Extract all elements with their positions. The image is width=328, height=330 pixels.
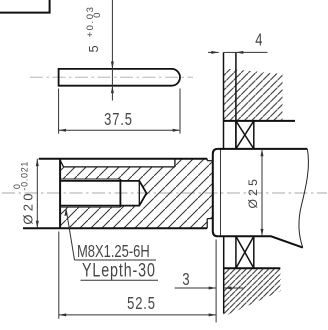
svg-text:0: 0 [92, 12, 103, 18]
svg-text:Ø25: Ø25 [246, 176, 260, 209]
svg-text:4: 4 [255, 31, 262, 51]
svg-text:+0.03: +0.03 [85, 5, 96, 37]
svg-text:-0.021: -0.021 [20, 161, 30, 191]
svg-text:Ø20: Ø20 [21, 190, 36, 224]
svg-text:YLepth-30: YLepth-30 [82, 260, 156, 281]
svg-text:52.5: 52.5 [127, 294, 156, 314]
svg-text:3: 3 [182, 270, 189, 290]
svg-text:37.5: 37.5 [104, 110, 133, 130]
svg-text:5: 5 [86, 43, 101, 53]
